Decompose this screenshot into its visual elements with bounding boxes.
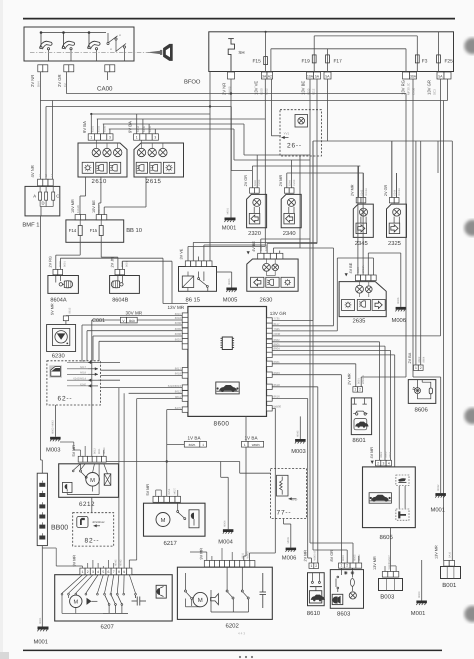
svg-text:6244: 6244 (394, 189, 397, 195)
svg-text:8606: 8606 (415, 406, 429, 413)
8600 car icon (216, 382, 239, 394)
8604A pin2 wire (59, 258, 61, 269)
BB10 connectors (75, 215, 80, 220)
svg-text:1V BA: 1V BA (188, 436, 202, 441)
fuse F14 (78, 226, 82, 236)
svg-text:M003: M003 (418, 591, 421, 598)
6212 switch (80, 464, 88, 479)
wire CA00 pin2 down (65, 72, 67, 94)
svg-text:2V MR: 2V MR (351, 184, 355, 196)
6212 output to 82 (91, 497, 93, 512)
wire 62 to M003 (54, 405, 56, 437)
svg-text:6104/6: 6104/6 (77, 205, 80, 213)
wire 8616 to 8610 (272, 398, 308, 400)
svg-text:5V MR: 5V MR (51, 303, 55, 315)
6212 valve icon (104, 474, 111, 486)
svg-text:8617: 8617 (175, 366, 182, 370)
wire rows to door unit 62 (101, 369, 183, 371)
svg-text:1V BA: 1V BA (245, 436, 259, 441)
8600 chip icon (221, 337, 235, 350)
connector stack BB00 (37, 473, 47, 545)
svg-text:M005: M005 (287, 536, 290, 543)
6207 washer jet icon (87, 598, 92, 605)
svg-text:2320: 2320 (248, 230, 261, 237)
svg-text:5A: 5A (325, 74, 330, 78)
svg-text:4V BE: 4V BE (349, 262, 353, 273)
svg-text:2V RG: 2V RG (49, 256, 53, 267)
svg-text:6112: 6112 (312, 88, 316, 95)
svg-text:M006: M006 (282, 554, 297, 561)
wire rail B (40, 100, 447, 102)
svg-text:9V BA: 9V BA (127, 121, 132, 133)
svg-text:7717: 7717 (292, 499, 298, 502)
svg-text:8609: 8609 (175, 327, 182, 331)
fuse F15 (264, 57, 268, 65)
rear lamp 2635 (339, 282, 386, 317)
svg-text:6244: 6244 (289, 180, 292, 186)
svg-text:F15: F15 (90, 228, 98, 233)
2630 connector strip (258, 253, 264, 259)
svg-text:6103: 6103 (98, 126, 101, 132)
6202 pin stubs (206, 552, 208, 561)
svg-text:77--: 77-- (277, 509, 292, 516)
svg-text:F17: F17 (334, 59, 343, 65)
left edge scan shading (0, 0, 3, 659)
dashed anti-theft 82-- (73, 513, 114, 546)
6207 connector strip (80, 568, 85, 575)
left rail lower (41, 460, 43, 473)
svg-text:2635: 2635 (353, 317, 366, 324)
svg-text:a: a (119, 33, 121, 37)
svg-text:8611: 8611 (98, 448, 101, 454)
svg-text:13V VE: 13V VE (254, 81, 259, 95)
svg-text:30V MR: 30V MR (126, 310, 143, 315)
svg-text:13V BE: 13V BE (301, 81, 306, 95)
svg-text:M045: M045 (296, 430, 299, 437)
wire 8603 pins (346, 550, 348, 563)
svg-text:2: 2 (87, 570, 89, 574)
dashed unit 26-- (280, 110, 321, 156)
direction indicator 2320 (247, 194, 267, 227)
svg-text:62--: 62-- (58, 396, 73, 403)
svg-text:2325: 2325 (388, 240, 401, 247)
svg-text:6217: 6217 (164, 540, 178, 547)
wire to bulb YV1 (270, 79, 272, 136)
8605 car icon (369, 493, 391, 504)
svg-text:5A: 5A (315, 74, 320, 78)
svg-text:2V NR: 2V NR (30, 75, 35, 87)
6207 motor (70, 595, 82, 607)
svg-text:7: 7 (113, 570, 115, 574)
wire BF00 2V NR to ground M001 (230, 79, 232, 218)
wire 8618 to 8610 (272, 386, 318, 388)
svg-text:6207: 6207 (101, 624, 115, 631)
ground M001 bottom left (38, 627, 49, 630)
svg-text:C230: C230 (258, 179, 261, 186)
6212 pin stubs (80, 450, 82, 456)
svg-text:M001: M001 (222, 225, 237, 232)
CA00 internal contacts (41, 32, 107, 34)
svg-text:1: 1 (82, 570, 84, 574)
wire rail h129 to indicators (109, 128, 234, 130)
svg-text:4 4 3: 4 4 3 (238, 632, 245, 636)
wire 7735 up (272, 320, 313, 322)
body control unit 8600 (188, 307, 267, 417)
svg-text:4: 4 (388, 461, 390, 465)
2615 output down to BB10 (145, 177, 147, 207)
svg-text:2V MR: 2V MR (279, 175, 283, 187)
svg-text:2V GR: 2V GR (384, 184, 388, 196)
svg-text:M001: M001 (411, 610, 426, 617)
wire 8475 row to 1V BA left and 6217 (166, 410, 168, 497)
svg-text:2615: 2615 (146, 178, 162, 185)
svg-text:1: 1 (202, 443, 204, 447)
2635 pin4 (373, 258, 375, 275)
6202 mid switches (211, 567, 249, 612)
6202 capacitor (260, 573, 267, 608)
wire right rail to B001 pin2 (451, 141, 453, 561)
rear lamp 2630 (247, 259, 298, 291)
svg-text:8601: 8601 (352, 437, 366, 444)
ground M003 left (50, 437, 61, 440)
module 8610 (308, 573, 325, 606)
ground M003 right (295, 439, 306, 442)
ignition key icon (147, 44, 173, 60)
svg-text:D: D (42, 201, 45, 206)
left rail BMF1 to M001 (40, 216, 42, 460)
svg-text:8604A: 8604A (50, 297, 66, 303)
wire rails to indicators (244, 154, 310, 156)
ground M001 top (225, 218, 236, 221)
CA00 contact group 4 (107, 33, 126, 61)
6202 left switch (185, 573, 201, 607)
wire 8604 (272, 349, 390, 351)
fuse F15 (BB10) (99, 226, 103, 236)
door icon (49, 365, 62, 377)
svg-text:8603: 8603 (337, 611, 351, 618)
rear washer pump 6217 (144, 503, 206, 536)
svg-text:C230: C230 (293, 179, 296, 186)
svg-text:8600: 8600 (214, 420, 230, 427)
svg-text:M027: M027 (174, 487, 177, 494)
junction dots (209, 105, 211, 107)
fuse F3 (415, 55, 419, 63)
svg-text:8604B: 8604B (112, 297, 128, 303)
6217 pin stubs (155, 490, 157, 496)
svg-text:C030: C030 (412, 87, 416, 95)
svg-text:WB00D: WB00D (362, 375, 365, 384)
svg-text:6202: 6202 (226, 623, 240, 630)
svg-text:M: M (198, 597, 203, 604)
fuse F25 (437, 55, 441, 63)
wire 8605 (272, 345, 385, 347)
svg-text:BFOO: BFOO (184, 79, 201, 86)
svg-text:2340: 2340 (283, 230, 296, 237)
wire 8601 pin2 from battery (360, 377, 362, 387)
svg-text:2: 2 (346, 564, 348, 568)
svg-text:M001: M001 (34, 638, 49, 645)
direction indicator 2340 (281, 194, 301, 227)
wire rail A drop right (405, 94, 407, 142)
wire 13V BE second drop (312, 141, 314, 550)
8605 conn arrow (371, 461, 374, 464)
svg-text:2: 2 (377, 461, 379, 465)
svg-text:8615: 8615 (175, 312, 182, 316)
svg-text:BB00: BB00 (51, 525, 68, 532)
svg-text:8604: 8604 (389, 451, 392, 457)
headlamp unit 2615 (134, 143, 184, 177)
ground M006 right (396, 307, 407, 310)
svg-text:C: C (56, 194, 59, 199)
door switch module 62 (47, 361, 101, 405)
wire row 8615 to 6230 (66, 315, 182, 317)
svg-text:2345: 2345 (355, 240, 368, 247)
svg-text:5V MR: 5V MR (146, 484, 150, 496)
svg-text:8602: 8602 (380, 451, 383, 457)
ignition switch CA00 (24, 27, 134, 61)
svg-text:8601: 8601 (125, 261, 128, 267)
wire rail h124 to indicators (103, 123, 244, 125)
svg-text:13V MR: 13V MR (373, 556, 377, 570)
svg-text:8615: 8615 (69, 307, 72, 313)
wire 8602 to 8605 (272, 341, 379, 343)
wire F17 long drop (327, 79, 329, 141)
8615 coil (182, 276, 193, 288)
2635 connector strip (355, 275, 360, 281)
6202 motor (193, 592, 207, 606)
svg-text:M005: M005 (223, 297, 238, 304)
svg-text:F25: F25 (445, 59, 454, 65)
svg-text:M032: M032 (437, 484, 440, 491)
BMF1 output (40, 207, 42, 216)
relay 8615 (179, 267, 217, 292)
svg-text:9V BA: 9V BA (82, 121, 87, 133)
svg-text:M: M (161, 518, 166, 524)
wire 13V BE second (316, 79, 318, 244)
svg-text:1: 1 (136, 136, 138, 140)
2630 icon boxes (251, 277, 264, 287)
rear wiper motor 6202 (177, 567, 272, 619)
svg-text:1: 1 (354, 388, 356, 392)
6202 speaker triangle (211, 594, 219, 605)
ground M001 bottom right (421, 560, 423, 601)
svg-text:3V VE: 3V VE (180, 248, 184, 259)
svg-text:SH: SH (238, 50, 244, 55)
svg-text:8611: 8611 (242, 552, 245, 558)
svg-text:1: 1 (244, 443, 246, 447)
svg-text:A2: A2 (268, 74, 272, 78)
6217 contact (177, 503, 186, 519)
wire F14 to 8604A (79, 240, 81, 256)
svg-text:6100: 6100 (260, 88, 264, 95)
svg-text:4V NR: 4V NR (30, 165, 35, 177)
svg-text:8612: 8612 (94, 448, 97, 454)
CA00 dash-dot key axis (30, 51, 149, 53)
8615 feed wires (187, 247, 189, 261)
svg-text:8610: 8610 (307, 610, 321, 617)
fuse box BB10 (66, 220, 124, 242)
svg-text:10V MR: 10V MR (71, 199, 75, 213)
8600 right pins (267, 318, 273, 323)
svg-text:F19: F19 (302, 59, 311, 65)
svg-text:3050/8612: 3050/8612 (92, 521, 105, 524)
svg-text:1: 1 (90, 136, 92, 140)
2630 bulbs (263, 263, 271, 271)
svg-text:B001: B001 (442, 582, 457, 589)
BMF1 connector strip (38, 179, 43, 186)
wire CA00 pin1 to BMF1 (39, 72, 41, 179)
shunt SH (228, 39, 234, 72)
2610 bulbs (92, 148, 100, 156)
svg-text:26--: 26-- (287, 143, 302, 150)
2610 connector strip (88, 134, 94, 140)
svg-text:6243/8613: 6243/8613 (168, 384, 182, 388)
svg-text:1: 1 (415, 366, 417, 370)
8603 icon box (332, 594, 343, 604)
svg-text:8604: 8604 (422, 356, 425, 362)
svg-text:8605: 8605 (385, 451, 388, 457)
svg-text:A: A (33, 194, 36, 199)
svg-text:WB00: WB00 (247, 551, 250, 559)
svg-text:5: 5 (102, 570, 104, 574)
2615 icon boxes (136, 162, 147, 173)
8600 left pins (182, 313, 188, 318)
switch unit 8603 (330, 570, 363, 609)
wire rail A battery feed (66, 93, 406, 95)
wires from 8600 to 6207 pins (118, 388, 120, 568)
svg-text:82--: 82-- (85, 537, 100, 544)
svg-text:6212: 6212 (79, 501, 95, 508)
relay module 77 (271, 469, 307, 519)
wire 8600 to M003 right (299, 416, 301, 439)
ground M001 mid right (440, 377, 442, 493)
svg-text:F15: F15 (253, 59, 262, 65)
junction B003 (379, 579, 403, 591)
svg-text:M001: M001 (39, 617, 42, 624)
svg-text:13V GR: 13V GR (270, 311, 287, 316)
8615 connector strip (185, 261, 190, 267)
svg-text:2V GR: 2V GR (57, 74, 62, 87)
svg-text:WB05: WB05 (252, 443, 261, 447)
svg-text:6106: 6106 (143, 126, 146, 132)
svg-text:MF30 JC: MF30 JC (407, 82, 411, 95)
svg-text:8475: 8475 (175, 406, 182, 410)
wire rail C (46, 106, 231, 108)
6202 connector strip (204, 561, 209, 567)
8603 contacts (336, 568, 354, 592)
fuse F19 (312, 55, 316, 63)
svg-text:M003 M043: M003 M043 (51, 420, 54, 434)
6207 pump component (156, 585, 166, 598)
8603 indicator marks (344, 571, 348, 575)
svg-text:M005: M005 (228, 278, 231, 285)
wire 2325 riser rails (391, 141, 393, 198)
wire 77 bottom to M006 (283, 519, 285, 525)
svg-text:6106/8: 6106/8 (98, 205, 101, 213)
border frame top line (23, 18, 455, 20)
6207 internal wire fan (61, 575, 136, 614)
wire rail to headlamps h114 (91, 113, 210, 115)
svg-text:F14: F14 (69, 228, 77, 233)
svg-text:6230: 6230 (52, 352, 65, 359)
ground M004 (220, 462, 222, 478)
wire WB00 down (272, 407, 275, 409)
2635 feed wires (357, 166, 359, 275)
svg-text:10: 10 (39, 174, 42, 177)
6212 internal wires (67, 464, 107, 495)
wire mid rail (104, 461, 240, 463)
svg-text:2V MR: 2V MR (347, 373, 351, 385)
front wiper motor 6207 (55, 575, 173, 621)
border frame bottom line (23, 649, 442, 651)
6217 connector strip (153, 496, 159, 502)
ground M005 (231, 272, 233, 288)
svg-text:8V GR: 8V GR (330, 550, 334, 562)
svg-text:CA00: CA00 (97, 86, 113, 93)
direction indicator 2325 (387, 204, 407, 237)
BF00 rail lower (271, 48, 406, 50)
svg-text:2V JN: 2V JN (111, 257, 115, 268)
2610 outputs down to BB10 (85, 177, 87, 196)
2615 bulbs (137, 148, 145, 156)
svg-text:BA4: BA4 (36, 81, 40, 87)
svg-text:M004: M004 (224, 520, 227, 527)
module 8605 (363, 467, 416, 528)
horn 8604B (110, 276, 140, 294)
8603 lamp (349, 592, 356, 599)
wire rail 438 (437, 141, 439, 173)
6212 pump icon (63, 482, 73, 492)
battery fuse unit BMF1 (25, 186, 60, 216)
wire 26 box bottom (299, 156, 301, 248)
svg-text:1: 1 (340, 564, 342, 568)
headlamp unit 2610 (78, 143, 127, 177)
svg-text:M004: M004 (218, 539, 233, 546)
svg-text:M: M (90, 478, 95, 484)
svg-text:4: 4 (97, 570, 99, 574)
wire 7345 (272, 330, 337, 332)
svg-text:13V MR: 13V MR (434, 545, 438, 559)
svg-text:C001: C001 (92, 318, 105, 324)
2615 pin risers (136, 114, 138, 134)
svg-text:M003: M003 (46, 446, 61, 453)
svg-text:B60: B60 (129, 319, 135, 323)
washer pump 6212 (59, 464, 119, 498)
2635 icon boxes (342, 300, 355, 311)
svg-text:4V MR: 4V MR (370, 447, 374, 459)
wire rail B drop to B001 (447, 79, 449, 101)
horn 8604A (48, 276, 79, 294)
svg-text:6101: 6101 (92, 126, 95, 132)
wire 8600 to 1V BA right (245, 416, 247, 441)
svg-text:6104: 6104 (137, 126, 140, 132)
svg-text:13V GR: 13V GR (427, 80, 432, 95)
svg-text:M005: M005 (354, 554, 357, 561)
binder hole marks right edge (464, 38, 474, 54)
svg-text:8601: 8601 (357, 378, 360, 384)
wire BF00 left drop to 8615 (209, 72, 211, 261)
SH to 2V NR pin (230, 70, 232, 73)
BMF1 fuses A D C (39, 192, 42, 200)
CA00 connector pins (38, 65, 43, 72)
svg-text:M003: M003 (291, 448, 306, 455)
6207 switches (103, 595, 128, 613)
svg-text:8601: 8601 (63, 261, 66, 267)
svg-text:8603: 8603 (342, 555, 345, 561)
8615 contact (198, 272, 209, 292)
svg-text:M045: M045 (115, 559, 118, 566)
wire C030 from 13V GR (272, 335, 440, 337)
